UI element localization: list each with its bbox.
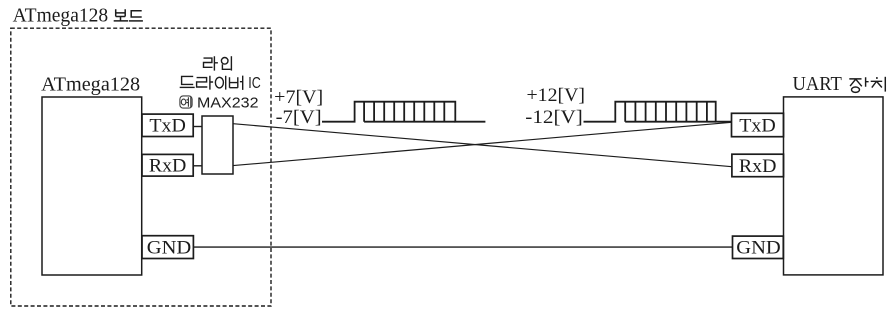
- label: -7[V]: [276, 107, 322, 128]
- line driver IC U1 (MAX232): [202, 116, 233, 174]
- port GND (ATmega128): [142, 236, 193, 259]
- label: "장치" (device): [849, 77, 885, 93]
- label: boxed "예" MAX232: [180, 96, 259, 112]
- svg-text:ATmega128: ATmega128: [13, 5, 109, 26]
- svg-text:ATmega128: ATmega128: [41, 74, 140, 95]
- label: -12[V]: [525, 107, 583, 128]
- port TxD (UART): [732, 113, 784, 136]
- port TxD (ATmega128): [142, 114, 193, 137]
- svg-text:TxD: TxD: [149, 116, 186, 137]
- svg-text:GND: GND: [147, 237, 192, 258]
- port RxD (UART): [732, 154, 784, 177]
- svg-text:+7[V]: +7[V]: [274, 87, 323, 108]
- label: board title "ATmega128 보드": [13, 5, 143, 26]
- wire GND bus: [193, 246, 732, 248]
- svg-text:RxD: RxD: [149, 156, 187, 177]
- label: +7[V]: [274, 87, 323, 108]
- wire IC RX input crossing from UART TxD: [233, 122, 732, 165]
- wire TxD to IC: [193, 126, 202, 128]
- waveform ±7V pulse train: [322, 102, 485, 122]
- port GND (UART): [733, 236, 784, 259]
- label: "라인" (line): [204, 56, 232, 70]
- svg-text:-7[V]: -7[V]: [276, 107, 322, 128]
- block UART device: [784, 73, 884, 275]
- port RxD (ATmega128): [142, 154, 193, 176]
- svg-text:+12[V]: +12[V]: [527, 85, 586, 106]
- wire IC TX output crossing to UART RxD: [233, 124, 732, 167]
- svg-text:UART: UART: [793, 73, 843, 95]
- dashed board outline: [11, 28, 271, 306]
- svg-text:MAX232: MAX232: [197, 96, 259, 112]
- waveform ±12V pulse train: [584, 102, 732, 122]
- svg-text:RxD: RxD: [739, 156, 777, 177]
- label: +12[V]: [527, 85, 586, 106]
- svg-text:TxD: TxD: [739, 115, 776, 136]
- svg-text:GND: GND: [736, 238, 781, 259]
- wire RxD to IC: [193, 165, 202, 167]
- svg-text:IC: IC: [248, 75, 260, 92]
- svg-text:-12[V]: -12[V]: [525, 107, 583, 128]
- block ATmega128: [41, 74, 142, 275]
- label: "드라이버 IC" (driver IC): [180, 75, 261, 92]
